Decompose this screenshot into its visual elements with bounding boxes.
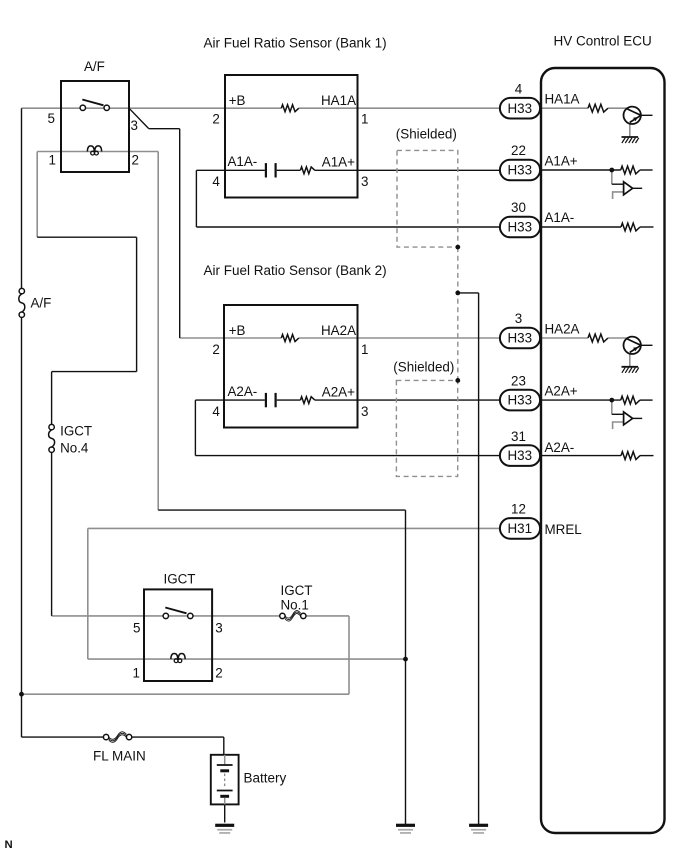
label A1A- Bank1 (228, 154, 258, 169)
switch contact A/F relay left (80, 105, 85, 110)
wire: ECU internal HA2A to resistor and transistor base (541, 337, 627, 339)
ground (chassis) Q1 (622, 137, 639, 143)
label Battery (244, 770, 287, 785)
svg-text:HV Control ECU: HV Control ECU (554, 33, 652, 48)
connector H33 pin 30 (500, 217, 540, 238)
label fuse A/F (31, 296, 52, 311)
connector H33 pin 31 (500, 445, 540, 466)
svg-text:A2A-: A2A- (228, 384, 258, 399)
transistor Q2 (624, 337, 641, 354)
wire: ECU internal A2A- (541, 455, 654, 457)
label Air Fuel Ratio Sensor (Bank 2) (204, 263, 387, 278)
resistor ECU HA1A (588, 104, 608, 112)
svg-text:H33: H33 (508, 393, 533, 408)
wire: IGCT relay pin5 feed from IGCT No.4 fuse, y=615.9 (52, 615, 280, 617)
pin 3 IGCT relay (215, 621, 222, 636)
pin 1 Bank1 (361, 112, 368, 127)
label HA2A (ECU) (545, 322, 580, 337)
fuse IGCT No.1 (280, 611, 306, 622)
label A1A+ (ECU) (545, 153, 578, 168)
pin number 22 (511, 143, 526, 158)
resistor ECU A2A- (621, 452, 640, 460)
ground at x=478.6 (469, 824, 488, 834)
label Air Fuel Ratio Sensor (Bank 1) (204, 36, 387, 51)
label A2A- Bank2 (228, 384, 258, 399)
wire: transistor Q2 emitter to ground (629, 354, 631, 367)
svg-text:MREL: MREL (545, 522, 582, 537)
svg-text:1: 1 (49, 153, 56, 168)
wire: Bank2 cell leads (224, 399, 358, 401)
resistor heater Bank1 (281, 105, 299, 112)
svg-text:A2A+: A2A+ (322, 385, 355, 400)
wire: ground vertical, x=405.5 (405, 510, 407, 824)
label HV Control ECU (554, 33, 652, 48)
wire: buffer U1 reference stub (613, 192, 624, 199)
wire: ECU internal A2A+ (541, 400, 653, 414)
shield drain dashed vertical, x=457.8 (457, 247, 459, 380)
wire: MREL horizontal from H31 to x=87.8, y=528.4 (88, 527, 500, 529)
wire: IGCT relay pin3 output after IGCT No.1 fuse (306, 615, 349, 617)
label A1A+ Bank1 (322, 155, 355, 170)
node: IGCT coil to ground line junction (403, 657, 408, 662)
svg-text:4: 4 (212, 404, 220, 419)
wire: buffer U2 reference stub (613, 422, 624, 429)
wire: transistor Q1 collector out (641, 114, 653, 116)
connector H33 pin 23 (500, 390, 540, 411)
op-amp buffer U2 (624, 412, 633, 425)
wire: drop into battery, x=223.8 (223, 737, 225, 755)
pin number 4 (515, 81, 523, 96)
label FL MAIN (93, 749, 146, 764)
svg-text:H33: H33 (508, 331, 533, 346)
svg-text:4: 4 (515, 81, 523, 96)
svg-text:Battery: Battery (244, 770, 287, 785)
switch contact A/F relay right (104, 105, 109, 110)
svg-text:HA1A: HA1A (545, 91, 580, 106)
connector H31 pin 12 (500, 518, 540, 539)
node: shield drain to ground junction (455, 291, 460, 296)
wire: buffer U2 output (633, 417, 643, 419)
wire: A/F relay pin3 diagonal (129, 108, 149, 129)
wire: MREL drop to IGCT relay coil pin1, x=87.8 (87, 528, 89, 659)
pin 4 Bank2 (212, 404, 220, 419)
fusible link FL MAIN (103, 732, 131, 743)
svg-text:A/F: A/F (84, 59, 105, 74)
wire: A1A- from Bank1 pin4 to H33-30 (196, 170, 500, 227)
switch blade A/F relay (82, 100, 103, 106)
wire: IGCT No.4 fuse vertical, x=51.6 (51, 372, 53, 616)
wire: transistor Q2 collector out (641, 344, 653, 346)
wire: battery positive horizontal through FL MAIN, y=737.1 (22, 736, 224, 738)
pin 3 A/F relay (131, 118, 138, 133)
svg-text:H33: H33 (508, 220, 533, 235)
ground at x=405.5 (396, 824, 415, 834)
label HA1A Bank1 (321, 93, 356, 108)
wire: ECU internal HA1A to resistor and transistor base (541, 107, 627, 109)
switch blade IGCT relay (165, 608, 186, 614)
label fuse IGCT No.4 (60, 424, 92, 456)
wire: ECU internal A1A+ (541, 170, 653, 184)
wire: A/F relay coil return, y=510.1 (158, 509, 405, 511)
resistor cell Bank2 (300, 397, 314, 404)
HV Control ECU box (541, 68, 665, 833)
label MREL (ECU) (545, 522, 582, 537)
svg-text:No.4: No.4 (60, 441, 89, 456)
pin number 23 (511, 373, 526, 388)
pin 1 IGCT relay (133, 666, 140, 681)
label HA1A (ECU) (545, 91, 580, 106)
connector H33 pin 3 (500, 328, 540, 349)
fuse A/F (19, 288, 25, 317)
pin 2 Bank2 (212, 342, 219, 357)
svg-text:22: 22 (511, 143, 526, 158)
wire: A/F relay pin1 drop, x=37.2 (36, 152, 38, 238)
wire: branch vertical x=136.6 (136, 237, 138, 371)
wire: A/F relay pin2 drop, x=158.2 (157, 152, 159, 511)
pin 3 Bank1 (361, 174, 368, 189)
coil A/F relay (87, 146, 101, 155)
svg-text:Air Fuel Ratio Sensor (Bank 2): Air Fuel Ratio Sensor (Bank 2) (204, 263, 387, 278)
relay IGCT box (144, 589, 212, 681)
node: A2A+ tap (609, 398, 614, 403)
svg-text:FL MAIN: FL MAIN (93, 749, 146, 764)
wire: A1A+ tap down to buffer U1 input (611, 170, 613, 184)
svg-text:+B: +B (229, 93, 246, 108)
svg-text:H31: H31 (508, 521, 533, 536)
shield box Bank2 (dashed) (396, 380, 457, 476)
pin 4 Bank1 (212, 174, 220, 189)
label A/F relay (84, 59, 105, 74)
svg-text:2: 2 (132, 153, 139, 168)
svg-text:H33: H33 (508, 101, 533, 116)
pin number 30 (511, 200, 526, 215)
wire: main battery vertical through A/F fuse, x=21.5 (21, 108, 23, 737)
relay A/F box (61, 81, 129, 172)
resistor heater Bank2 (281, 335, 299, 342)
svg-text:2: 2 (212, 112, 219, 127)
svg-text:A/F: A/F (31, 296, 52, 311)
pin 1 A/F relay (49, 153, 56, 168)
wire: battery negative to ground (224, 804, 226, 822)
svg-text:IGCT: IGCT (60, 424, 92, 439)
svg-text:HA1A: HA1A (321, 93, 356, 108)
switch contact IGCT left (163, 613, 168, 618)
svg-text:23: 23 (511, 373, 526, 388)
svg-text:No.1: No.1 (281, 598, 309, 613)
svg-text:HA2A: HA2A (321, 323, 356, 338)
svg-text:(Shielded): (Shielded) (396, 126, 457, 141)
pin 2 IGCT relay (215, 666, 222, 681)
capacitor cell Bank1 (266, 163, 276, 177)
switch contact IGCT right (188, 613, 193, 618)
node: battery feed junction (19, 692, 24, 697)
svg-text:30: 30 (511, 200, 526, 215)
label fuse IGCT No.1 (281, 583, 313, 612)
wire: pin3 branch horizontal, y=128.7 (149, 128, 180, 130)
wire: battery junction horizontal, y=694.2 (22, 693, 350, 695)
pin 2 Bank1 (212, 112, 219, 127)
label HA2A Bank2 (321, 323, 356, 338)
transistor Q1 (624, 107, 641, 124)
svg-text:H33: H33 (508, 163, 533, 178)
wire: buffer U1 output (633, 187, 643, 189)
ground (chassis) Q2 (622, 367, 639, 373)
svg-text:HA2A: HA2A (545, 322, 580, 337)
svg-text:5: 5 (48, 111, 55, 126)
wire: A/F relay coil horizontal pin1-pin2, y=151.5 (37, 151, 158, 153)
label A2A- (ECU) (545, 440, 575, 455)
wire: A1A+ from Bank1 pin3 to H33-22, y=170.3 (358, 169, 501, 171)
svg-text:31: 31 (511, 429, 526, 444)
wire: battery feed through A/F relay switch and Bank1 sensor +B/HA1A, y=108 (22, 107, 501, 109)
resistor cell Bank1 (300, 167, 314, 174)
coil IGCT relay (171, 654, 185, 663)
svg-text:A1A+: A1A+ (322, 155, 355, 170)
svg-text:1: 1 (361, 342, 368, 357)
svg-text:A1A+: A1A+ (545, 153, 578, 168)
sensor box Bank1 (225, 75, 358, 198)
pin number 12 (511, 502, 526, 517)
svg-text:A2A-: A2A- (545, 440, 575, 455)
svg-text:3: 3 (131, 118, 138, 133)
fuse IGCT No.4 (49, 424, 55, 452)
shield label 2 (393, 359, 454, 374)
svg-text:IGCT: IGCT (281, 583, 313, 598)
wire: Bank1 cell leads (225, 169, 358, 171)
label A2A+ Bank2 (322, 385, 355, 400)
wire: A2A- from Bank2 pin4 to H33-31 (195, 400, 500, 456)
svg-text:A1A-: A1A- (228, 154, 258, 169)
node: shield2 drain junction (455, 378, 460, 383)
svg-text:4: 4 (212, 174, 220, 189)
svg-text:5: 5 (133, 621, 140, 636)
wire: branch horizontal y=371.6 (52, 371, 137, 373)
label A2A+ (ECU) (545, 383, 578, 398)
svg-text:N: N (5, 839, 13, 851)
svg-text:A1A-: A1A- (545, 210, 575, 225)
pin 1 Bank2 (361, 342, 368, 357)
resistor ECU A1A- (621, 223, 640, 231)
shield label 1 (396, 126, 457, 141)
sensor box Bank2 (224, 305, 358, 428)
svg-text:H33: H33 (508, 448, 533, 463)
svg-text:2: 2 (212, 342, 219, 357)
svg-text:1: 1 (133, 666, 140, 681)
capacitor cell Bank2 (266, 393, 276, 407)
op-amp buffer U1 (624, 182, 633, 195)
svg-text:2: 2 (215, 666, 222, 681)
wire: A2A+ from Bank2 pin3 to H33-23, y=400.1 (358, 399, 501, 401)
pin number 3 (515, 311, 522, 326)
node: shield1 drain junction (455, 245, 460, 250)
wire: riser to IGCT No.1 fuse, x=349 (348, 616, 350, 694)
label A1A- (ECU) (545, 210, 575, 225)
wire: A/F relay pin1 to IGCT No.4 branch, y=237.2 (37, 236, 136, 238)
pin 3 Bank2 (361, 404, 368, 419)
label +B Bank1 (229, 93, 246, 108)
svg-text:(Shielded): (Shielded) (393, 359, 454, 374)
wire: shield drain to ground line (458, 292, 479, 294)
svg-text:12: 12 (511, 502, 526, 517)
resistor ECU A1A+ (621, 166, 640, 174)
svg-text:3: 3 (515, 311, 522, 326)
wire: shield ground vertical, x=478.6 (478, 293, 480, 824)
pin 2 A/F relay (132, 153, 139, 168)
svg-text:1: 1 (361, 112, 368, 127)
svg-text:3: 3 (361, 174, 368, 189)
svg-text:3: 3 (361, 404, 368, 419)
ground battery (215, 824, 234, 834)
svg-text:IGCT: IGCT (164, 571, 196, 586)
battery B1 (211, 755, 239, 805)
pin 5 A/F relay (48, 111, 55, 126)
wire: IGCT relay coil pin1-pin2 horizontal to ground line, y=659.1 (88, 658, 406, 660)
connector H33 pin 22 (500, 160, 540, 181)
wire: ECU internal A1A- (541, 226, 654, 228)
label N (page marker) (5, 839, 13, 851)
wire: pin3 branch drop to Bank2 +B, x=179.7 (179, 129, 181, 338)
wire: Bank2 sensor +B/HA2A horizontal, y=338 (180, 337, 500, 339)
wire: transistor Q1 emitter to ground (629, 124, 631, 137)
shield box Bank1 (dashed) (397, 150, 458, 247)
pin 5 IGCT relay (133, 621, 140, 636)
pin number 31 (511, 429, 526, 444)
connector H33 pin 4 (500, 98, 540, 119)
svg-text:A2A+: A2A+ (545, 383, 578, 398)
resistor ECU A2A+ (621, 396, 640, 404)
wire: A2A+ tap down to buffer U2 input (611, 400, 613, 414)
resistor ECU HA2A (588, 334, 608, 342)
label +B Bank2 (229, 323, 246, 338)
svg-text:+B: +B (229, 323, 246, 338)
node: A1A+ tap (609, 168, 614, 173)
svg-text:3: 3 (215, 621, 222, 636)
svg-text:Air Fuel Ratio Sensor (Bank 1): Air Fuel Ratio Sensor (Bank 1) (204, 36, 387, 51)
label IGCT relay (164, 571, 196, 586)
